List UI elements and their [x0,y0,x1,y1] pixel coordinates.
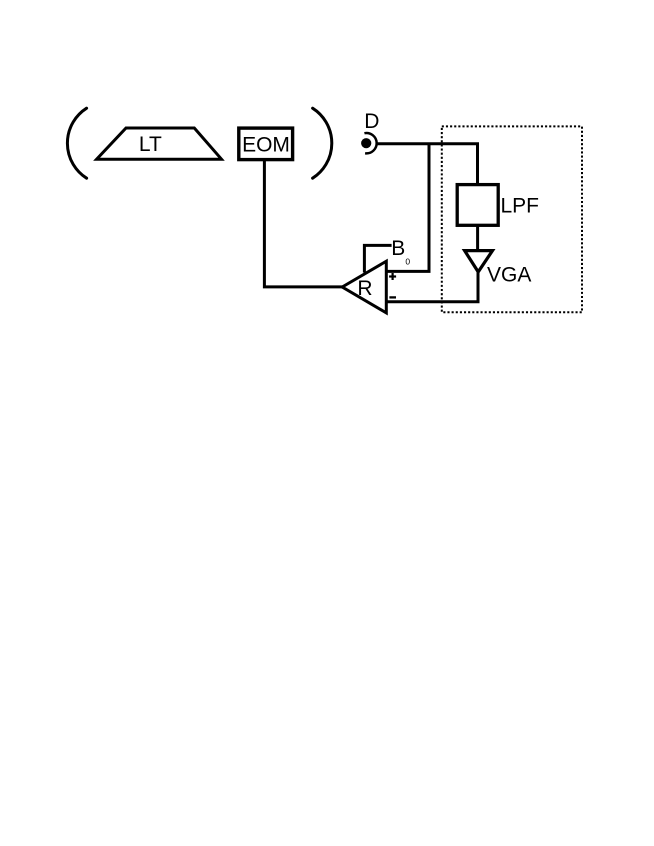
laser cavity mirror M1 (left curved mirror) [67,108,86,178]
svg-text:LPF: LPF [501,194,540,217]
wire from node on detector line down to comparator + input [386,144,429,272]
laser cavity mirror M2 (right curved mirror) [313,108,332,178]
wire from EOM down and right to comparator R output (apex) [264,160,342,287]
laser tube LT (trapezoid) [97,128,222,159]
svg-text:B: B [391,237,405,260]
LPF box (low-pass filter) [457,185,539,226]
bias input wire B0 to comparator top edge [364,245,391,272]
svg-text:0: 0 [405,256,410,266]
svg-text:LT: LT [139,133,162,156]
detector D collecting arc [364,133,376,153]
detector D photodiode dot [361,138,371,148]
dotted feedback electronics box [442,126,582,312]
svg-text:R: R [357,277,372,300]
EOM box (electro-optic modulator) [239,128,293,160]
wire from detector D right then down to LPF input [377,144,478,185]
svg-text:VGA: VGA [487,264,531,287]
svg-text:D: D [364,110,379,133]
svg-text:EOM: EOM [242,134,290,157]
wire from LPF to VGA [476,225,479,250]
label B0 [391,237,410,266]
VGA amplifier (variable gain amplifier, down-pointing triangle) [465,251,532,287]
op-amp comparator R (left-pointing triangle) [342,261,386,313]
plus label at comparator + input [389,273,396,280]
wire from VGA down and left to comparator - input [386,272,478,302]
minus label at comparator - input [389,296,396,298]
